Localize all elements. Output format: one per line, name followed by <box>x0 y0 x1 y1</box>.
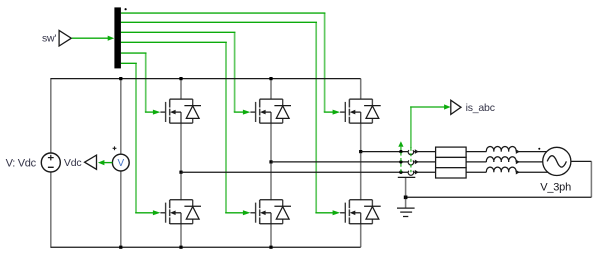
junction top rail leg 2 <box>269 77 272 80</box>
annotation dot near demux <box>125 8 127 10</box>
wire: leg 2 lower source to bottom rail <box>270 224 272 247</box>
junction bottom rail leg 1 <box>179 246 182 249</box>
wire: gate signal g2 to Q6 (bottom, leg 3) <box>121 22 340 215</box>
arrowhead after inductor phase A <box>516 170 520 175</box>
current sensor up-arrow <box>398 141 403 147</box>
wire: DC bus top rail <box>51 78 361 80</box>
wire: leg 3 upper source to phase node <box>360 123 362 152</box>
wire: source return to ground node <box>406 196 592 198</box>
wire: phase B resistor to inductor <box>466 161 486 163</box>
neutral plate bar <box>398 176 416 178</box>
inductor coil phase B <box>486 157 516 162</box>
wire: phase A line to load <box>181 171 436 173</box>
arrowhead after inductor phase C <box>516 149 520 154</box>
arrowhead into Vdc goto tag <box>98 160 105 165</box>
demux bar for gate signals <box>114 7 121 68</box>
arrowhead phase C after sensor <box>415 149 419 154</box>
wire: gate signal g1 to Q5 (top, leg 3) <box>121 13 340 115</box>
junction phase A at measurement node <box>399 171 402 174</box>
dashed measurement line left <box>400 147 402 172</box>
junction top rail leg 1 <box>179 77 182 80</box>
wire: gate signal g6 to Q2 (bottom, leg 1) <box>121 63 160 215</box>
wire: gate signal g4 to Q4 (bottom, leg 2) <box>121 42 251 215</box>
wire: leg 2 phase node to lower drain <box>270 162 272 200</box>
diode D1 (body diode of Q1) <box>184 99 201 123</box>
AC source V_3ph <box>543 147 571 175</box>
svg-text:Vdc: Vdc <box>64 157 82 169</box>
junction phase node leg 1 <box>179 171 182 174</box>
resistor box phase C <box>436 147 467 157</box>
current sensor loop phase C <box>408 150 413 155</box>
junction phase C at measurement node <box>399 150 402 153</box>
arrowhead into demux <box>108 36 115 41</box>
wire: gate signal g3 to Q3 (top, leg 2) <box>121 32 251 114</box>
wire: green is_abc signal horizontal <box>410 106 445 108</box>
wire: leg 2 upper source to phase node <box>270 123 272 162</box>
wire: gate signal g5 to Q1 (top, leg 1) <box>121 53 160 115</box>
transistor Q6 (N-MOSFET) <box>340 200 372 224</box>
wire: phase C to three-phase source <box>516 151 549 153</box>
transistor Q5 (N-MOSFET) <box>340 99 372 123</box>
wire: left rail upper segment <box>50 78 52 153</box>
wire: phase B line to load <box>271 161 436 163</box>
junction ground node <box>404 196 408 200</box>
transistor Q4 (N-MOSFET) <box>250 200 282 224</box>
wire: voltmeter branch upper segment <box>120 78 122 154</box>
wire: phase A to three-phase source <box>516 171 549 173</box>
wire: phase B to three-phase source <box>516 161 543 163</box>
wire: phase C resistor to inductor <box>466 151 486 153</box>
diode D5 (body diode of Q5) <box>364 99 381 123</box>
svg-text:V: V <box>117 158 124 169</box>
dashed measurement line right <box>410 148 412 173</box>
junction bottom rail / voltmeter branch <box>119 246 122 249</box>
wire: green from input port to demux <box>72 37 109 39</box>
arrowhead phase B after sensor <box>415 160 419 165</box>
wire: DC bus bottom rail <box>51 246 361 248</box>
transistor Q2 (N-MOSFET) <box>160 200 192 224</box>
arrowhead after inductor phase B <box>516 160 520 165</box>
wire: phase A resistor to inductor <box>466 171 486 173</box>
resistor box phase A <box>436 168 467 178</box>
voltmeter V <box>112 154 129 171</box>
junction phase node leg 3 <box>359 150 362 153</box>
diode D4 (body diode of Q4) <box>274 200 291 224</box>
wire: green signal voltmeter to goto tag Vdc <box>104 162 112 164</box>
inductor coil phase A <box>486 167 516 172</box>
wire: leg 3 lower source to bottom rail <box>360 224 362 247</box>
wire: leg 3 phase node to lower drain <box>360 152 362 201</box>
svg-text:V_3ph: V_3ph <box>540 181 571 193</box>
junction phase node leg 2 <box>269 160 272 163</box>
diode D3 (body diode of Q3) <box>274 99 291 123</box>
resistor box phase B <box>436 157 467 167</box>
svg-text:sw': sw' <box>42 33 56 45</box>
ground symbol <box>397 208 415 216</box>
diode D6 (body diode of Q6) <box>364 200 381 224</box>
junction bottom rail leg 2 <box>269 246 272 249</box>
junction top rail / voltmeter branch <box>119 77 122 80</box>
annotation dot near V_3ph <box>538 148 540 150</box>
polarity + mark of voltmeter <box>113 146 117 150</box>
voltage source V: Vdc <box>41 153 60 172</box>
wire: voltmeter branch lower segment <box>120 171 122 248</box>
wire: leg 1 lower source to bottom rail <box>180 224 182 247</box>
arrowhead into is_abc outport <box>444 104 451 109</box>
inductor coil phase C <box>486 146 516 151</box>
goto tag triangle Vdc <box>85 155 97 169</box>
wire: phase C line to load <box>361 151 436 153</box>
current sensor loop phase B <box>408 160 413 165</box>
junction phase B at measurement node <box>399 160 402 163</box>
wire: leg 1 top rail to upper drain <box>180 79 182 100</box>
svg-text:V: Vdc: V: Vdc <box>6 157 37 169</box>
wire: source return down <box>590 161 592 197</box>
wire: leg 1 phase node to lower drain <box>180 172 182 200</box>
wire: neutral bar to ground <box>405 177 407 208</box>
arrowhead phase A after sensor <box>415 170 419 175</box>
transistor Q3 (N-MOSFET) <box>250 99 282 123</box>
transistor Q1 (N-MOSFET) <box>160 99 192 123</box>
wire: leg 2 top rail to upper drain <box>270 79 272 100</box>
diode D2 (body diode of Q2) <box>184 200 201 224</box>
wire: green is_abc signal vertical <box>410 106 412 148</box>
current sensor loop phase A <box>408 171 413 176</box>
input port triangle sw <box>59 30 71 46</box>
output port triangle is_abc <box>451 100 461 114</box>
wire: leg 3 top rail to upper drain <box>360 79 362 100</box>
wire: left rail lower segment <box>50 172 52 248</box>
svg-text:is_abc: is_abc <box>466 102 495 114</box>
wire: leg 1 upper source to phase node <box>180 123 182 172</box>
wire: source return right <box>571 160 592 162</box>
